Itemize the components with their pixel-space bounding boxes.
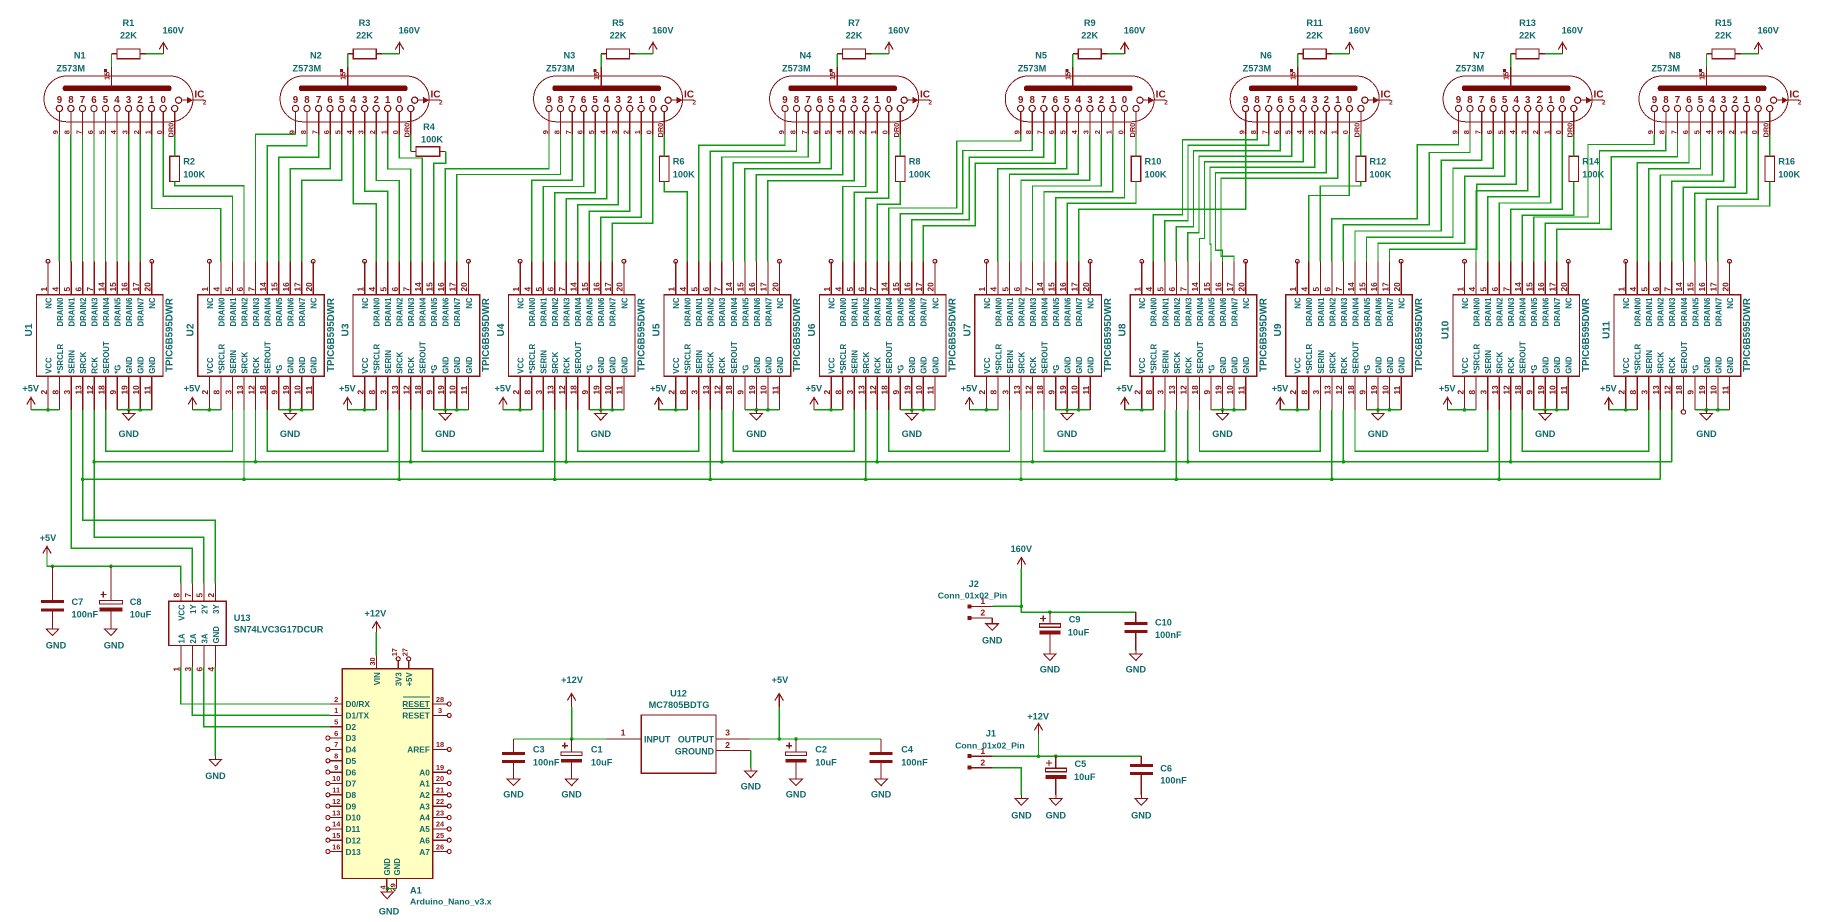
A1 right pins RESET/AREF/A0-A7 (402, 695, 451, 857)
svg-text:VCC: VCC (828, 357, 837, 374)
svg-text:N8: N8 (1669, 51, 1681, 61)
svg-text:10: 10 (1548, 385, 1558, 395)
svg-text:DRAIN6: DRAIN6 (1064, 297, 1073, 327)
N6 anode pin A (1289, 67, 1298, 88)
svg-text:16: 16 (1697, 282, 1707, 292)
wire N6 pin8 to U8 DRAIN7 (1221, 135, 1338, 262)
svg-text:GND: GND (46, 641, 67, 651)
svg-text:SRCK: SRCK (79, 351, 88, 373)
svg-text:7: 7 (564, 130, 573, 134)
svg-text:GND: GND (931, 356, 940, 374)
svg-text:GND: GND (1703, 356, 1712, 374)
SRCK bus (83, 478, 1661, 480)
svg-text:5: 5 (828, 95, 834, 106)
wire +5V to U9 VCC and SRCLR (1280, 409, 1309, 411)
svg-text:5: 5 (97, 130, 106, 134)
svg-text:DRAIN4: DRAIN4 (1041, 297, 1050, 327)
svg-text:9: 9 (1046, 390, 1056, 395)
svg-text:10uF: 10uF (130, 610, 152, 620)
svg-text:4: 4 (989, 287, 999, 292)
svg-text:DRAIN2: DRAIN2 (1657, 297, 1666, 327)
junction (599, 408, 603, 412)
svg-text:U4: U4 (496, 323, 507, 336)
svg-text:0: 0 (1554, 130, 1563, 134)
svg-text:A5: A5 (419, 824, 430, 834)
svg-text:2: 2 (1727, 130, 1736, 134)
wire U10 RCK drop (1510, 410, 1512, 462)
svg-text:0: 0 (155, 130, 164, 134)
svg-text:DRAIN0: DRAIN0 (684, 297, 693, 327)
U8 top pins (1133, 261, 1251, 326)
svg-text:1: 1 (1617, 287, 1627, 292)
svg-text:*SRCLR: *SRCLR (994, 344, 1003, 374)
svg-text:5: 5 (534, 287, 544, 292)
svg-text:7: 7 (1669, 130, 1678, 134)
power +5V at U8 (1116, 384, 1133, 410)
svg-text:2: 2 (511, 390, 521, 395)
wire N3 pin3 to U4 DRAIN1 (543, 135, 583, 262)
svg-text:13: 13 (546, 385, 556, 395)
svg-text:23: 23 (436, 808, 444, 817)
svg-text:16: 16 (903, 282, 913, 292)
wire U4 SEROUT to U5 SERIN (578, 410, 699, 451)
svg-text:13: 13 (73, 385, 83, 395)
svg-text:GND: GND (1726, 356, 1735, 374)
svg-text:8: 8 (50, 390, 60, 395)
svg-text:SERIN: SERIN (1317, 350, 1326, 374)
svg-text:J1: J1 (986, 729, 996, 739)
svg-text:9: 9 (1686, 390, 1696, 395)
N5 pin IC (1137, 90, 1168, 107)
svg-text:DRAIN0: DRAIN0 (994, 297, 1003, 327)
svg-text:U6: U6 (807, 323, 818, 336)
svg-text:R3: R3 (359, 18, 371, 28)
svg-text:U1: U1 (24, 323, 35, 336)
U1 pin 1 NC circle (46, 259, 50, 263)
svg-text:NC: NC (672, 297, 681, 309)
svg-text:15: 15 (891, 282, 901, 292)
svg-text:3: 3 (357, 130, 366, 134)
svg-text:GND: GND (1242, 356, 1251, 374)
resistor R16 100K (1765, 156, 1801, 181)
svg-text:8: 8 (1030, 95, 1036, 106)
wire U9 RCK drop (1342, 410, 1344, 462)
U6 bottom pins (822, 341, 940, 410)
IC U6 TPIC6B595DWR body (820, 295, 947, 377)
U10 bottom pins (1455, 341, 1573, 410)
svg-text:A1: A1 (410, 886, 422, 896)
wire +12V to A1 VIN (375, 632, 377, 656)
svg-text:DRAIN4: DRAIN4 (730, 297, 739, 327)
capacitor C6 100nF (1130, 756, 1187, 795)
N1 pin DR0 (167, 105, 178, 137)
svg-text:DRAIN1: DRAIN1 (1006, 297, 1015, 327)
junction (1555, 408, 1559, 412)
svg-text:3: 3 (1721, 95, 1727, 106)
junction (1221, 408, 1225, 412)
svg-text:DRAIN0: DRAIN0 (839, 297, 848, 327)
svg-text:2: 2 (1531, 130, 1540, 134)
svg-text:15: 15 (332, 831, 340, 840)
IC U10 TPIC6B595DWR body (1453, 295, 1580, 377)
U8 bottom pins (1133, 341, 1251, 410)
svg-text:18: 18 (569, 385, 579, 395)
N2 pin DR0 (403, 105, 414, 137)
wire N2 pin0 to U2 DRAIN3 (256, 134, 296, 261)
wire N5 pin6 to U7 DRAIN2 (1021, 135, 1090, 262)
svg-text:GND: GND (591, 429, 612, 439)
wire U4 RCK drop (565, 410, 567, 462)
svg-text:1: 1 (1744, 95, 1750, 106)
svg-text:5: 5 (1478, 287, 1488, 292)
svg-text:SEROUT: SEROUT (419, 341, 428, 374)
svg-text:DRAIN2: DRAIN2 (396, 297, 405, 327)
IC U11 TPIC6B595DWR body (1614, 295, 1741, 377)
wire U1 SEROUT to U2 SERIN (106, 410, 233, 451)
svg-text:DRAIN6: DRAIN6 (1703, 297, 1712, 327)
svg-text:100nF: 100nF (72, 610, 99, 620)
svg-text:160V: 160V (1124, 26, 1146, 36)
svg-text:2: 2 (693, 100, 697, 107)
svg-text:20: 20 (1720, 282, 1730, 292)
svg-text:6: 6 (817, 95, 823, 106)
svg-text:TPIC6B595DWR: TPIC6B595DWR (165, 298, 176, 372)
svg-text:DRAIN0: DRAIN0 (56, 297, 65, 327)
nixie tube N2 Z573M (280, 76, 429, 122)
svg-text:*SRCLR: *SRCLR (56, 344, 65, 374)
svg-text:0: 0 (1341, 130, 1350, 134)
resistor R3 22K (348, 18, 383, 59)
N4 pin IC (901, 90, 932, 107)
svg-text:7: 7 (569, 95, 574, 106)
svg-text:DRAIN1: DRAIN1 (695, 297, 704, 327)
svg-text:R16: R16 (1778, 157, 1795, 167)
svg-text:NC: NC (148, 297, 157, 309)
svg-text:DRAIN4: DRAIN4 (1680, 297, 1689, 327)
U12 pin 3 OUTPUT (716, 728, 750, 740)
U11 SEROUT NC circle (1681, 410, 1685, 414)
resistor R6 100K (660, 156, 696, 181)
junction (397, 478, 401, 482)
svg-text:*G: *G (275, 365, 284, 374)
wire R12 to U9 DRAIN1 (1320, 182, 1361, 262)
svg-text:18: 18 (436, 740, 444, 749)
svg-text:DRAIN1: DRAIN1 (1645, 297, 1654, 327)
svg-text:*G: *G (1530, 365, 1539, 374)
wire U3 RCK drop (410, 410, 412, 462)
svg-text:10uF: 10uF (1074, 772, 1096, 782)
svg-text:GND: GND (1535, 429, 1556, 439)
svg-text:GND: GND (597, 356, 606, 374)
power +5V at U3 (339, 384, 356, 410)
svg-text:1: 1 (1738, 130, 1747, 134)
svg-text:GND: GND (435, 429, 456, 439)
svg-text:8: 8 (1300, 390, 1310, 395)
svg-text:13: 13 (857, 385, 867, 395)
U4 pin 20 NC circle (622, 259, 626, 263)
junction (1342, 460, 1346, 464)
svg-text:SEROUT: SEROUT (730, 341, 739, 374)
svg-text:7: 7 (80, 95, 85, 106)
wire N5 pin4 to U7 DRAIN0 (998, 135, 1067, 262)
svg-text:8: 8 (1024, 130, 1033, 134)
svg-text:20: 20 (304, 282, 314, 292)
svg-text:SEROUT: SEROUT (102, 341, 111, 374)
svg-text:RCK: RCK (91, 357, 100, 374)
svg-text:C2: C2 (815, 745, 827, 755)
wire +5V to U8 VCC and SRCLR (1125, 409, 1154, 411)
svg-text:DRAIN7: DRAIN7 (1230, 298, 1239, 327)
svg-text:DRAIN3: DRAIN3 (91, 297, 100, 327)
svg-text:NC: NC (465, 297, 474, 309)
N7 anode pin A (1501, 67, 1510, 88)
svg-text:3: 3 (1312, 95, 1318, 106)
U4 top pins (511, 261, 629, 326)
svg-text:4: 4 (522, 287, 532, 292)
wire U8 SRCK drop (1175, 410, 1177, 480)
svg-text:GND: GND (212, 626, 221, 644)
svg-text:AREF: AREF (407, 745, 430, 755)
wire N5 pin7 to U7 DRAIN3 (1033, 135, 1102, 262)
svg-text:2: 2 (137, 95, 142, 106)
U6 pin 20 NC circle (933, 259, 937, 263)
U4 bottom pins (511, 341, 629, 410)
svg-text:C8: C8 (130, 597, 142, 607)
ground at C4 (871, 776, 892, 800)
svg-text:100K: 100K (1778, 170, 1800, 180)
svg-text:DRAIN0: DRAIN0 (1472, 297, 1481, 327)
ground at U1 (118, 410, 139, 439)
junction (611, 408, 615, 412)
ground at C2 (786, 776, 807, 800)
svg-text:SERIN: SERIN (851, 350, 860, 374)
svg-text:DRAIN1: DRAIN1 (540, 297, 549, 327)
svg-text:DRAIN0: DRAIN0 (1150, 297, 1159, 327)
wire U3 SRCK drop (398, 410, 400, 480)
svg-text:DRAIN4: DRAIN4 (1519, 297, 1528, 327)
svg-text:16: 16 (120, 282, 130, 292)
connector J1 Conn_01x02_Pin (968, 746, 993, 770)
wire U7 G/GND pins (1056, 409, 1091, 411)
junction (1054, 754, 1058, 758)
svg-text:22K: 22K (356, 31, 373, 41)
svg-text:14: 14 (413, 282, 423, 292)
svg-text:4: 4 (840, 95, 846, 106)
svg-text:13: 13 (332, 808, 340, 817)
svg-text:DRAIN7: DRAIN7 (1386, 298, 1395, 327)
svg-text:3: 3 (846, 130, 855, 134)
svg-text:DRAIN6: DRAIN6 (753, 297, 762, 327)
svg-text:20: 20 (459, 282, 469, 292)
svg-text:5: 5 (1640, 287, 1650, 292)
U2 pin 1 NC circle (208, 259, 212, 263)
svg-text:GND: GND (609, 356, 618, 374)
svg-text:1: 1 (639, 95, 645, 106)
svg-text:17: 17 (1380, 282, 1390, 292)
ground at U5 (746, 410, 767, 439)
svg-text:DRAIN7: DRAIN7 (764, 298, 773, 327)
svg-text:SRCK: SRCK (551, 351, 560, 373)
svg-text:SRCK: SRCK (1496, 351, 1505, 373)
wire anode to R9 (1072, 54, 1074, 67)
IC U2 TPIC6B595DWR body (198, 295, 325, 377)
svg-text:*G: *G (741, 365, 750, 374)
svg-text:10uF: 10uF (815, 757, 837, 767)
wire N1 pin5 to U1 DRAIN5 (116, 135, 118, 262)
svg-text:DRAIN7: DRAIN7 (137, 298, 146, 327)
svg-text:100K: 100K (1369, 170, 1391, 180)
wire R7 to 160V (872, 53, 889, 55)
wire anode to R7 (836, 54, 838, 67)
svg-text:8: 8 (1144, 390, 1154, 395)
wire N1 pin7 to U1 DRAIN7 (139, 135, 141, 262)
svg-text:3: 3 (1478, 390, 1488, 395)
svg-text:2: 2 (1099, 95, 1104, 106)
svg-text:GND: GND (1374, 356, 1383, 374)
svg-text:1: 1 (149, 95, 155, 106)
svg-text:2: 2 (439, 100, 443, 107)
svg-text:*SRCLR: *SRCLR (839, 344, 848, 374)
svg-text:12: 12 (713, 385, 723, 395)
wire anode to R11 (1297, 54, 1299, 67)
svg-text:C10: C10 (1155, 618, 1172, 628)
svg-text:4: 4 (1709, 95, 1715, 106)
svg-text:5: 5 (845, 287, 855, 292)
svg-text:2: 2 (822, 390, 832, 395)
svg-text:19: 19 (1213, 385, 1223, 395)
IC U3 TPIC6B595DWR body (353, 295, 480, 377)
svg-text:22K: 22K (1715, 31, 1732, 41)
svg-text:DRAIN6: DRAIN6 (287, 297, 296, 327)
N1 pin IC (176, 90, 207, 107)
svg-text:U3: U3 (341, 323, 352, 336)
svg-text:DRAIN4: DRAIN4 (885, 297, 894, 327)
svg-text:DRAIN3: DRAIN3 (718, 297, 727, 327)
svg-text:GND: GND (741, 782, 762, 792)
svg-text:+5V: +5V (40, 533, 57, 543)
svg-text:11: 11 (459, 385, 469, 394)
svg-text:5: 5 (339, 95, 345, 106)
svg-text:3: 3 (1307, 130, 1316, 134)
svg-text:7: 7 (1261, 130, 1270, 134)
svg-text:10uF: 10uF (1068, 627, 1090, 637)
svg-text:*SRCLR: *SRCLR (1472, 344, 1481, 374)
svg-text:SERIN: SERIN (695, 350, 704, 374)
svg-text:2: 2 (627, 95, 632, 106)
junction (1463, 408, 1467, 412)
svg-text:SERIN: SERIN (540, 350, 549, 374)
svg-text:2: 2 (980, 757, 985, 767)
svg-text:+5V: +5V (772, 675, 789, 685)
svg-text:9: 9 (334, 763, 338, 772)
wire N4 pin3 to U5 DRAIN4 (733, 135, 819, 262)
ground at C5 (1046, 795, 1067, 820)
power +5V rail (40, 533, 57, 554)
svg-text:8: 8 (989, 390, 999, 395)
capacitor C9 10uF (1039, 612, 1089, 650)
svg-text:R11: R11 (1306, 18, 1322, 28)
junction (444, 408, 448, 412)
svg-text:+12V: +12V (1027, 711, 1050, 721)
svg-text:15: 15 (108, 282, 118, 292)
wire N2 pin3 to U2 DRAIN6 (290, 135, 330, 262)
svg-text:10: 10 (1225, 385, 1235, 395)
svg-text:6: 6 (581, 95, 587, 106)
svg-text:1: 1 (1330, 130, 1339, 134)
svg-text:2: 2 (203, 100, 207, 107)
wire +5V to output rail (778, 707, 780, 739)
svg-text:14: 14 (1035, 282, 1045, 292)
svg-text:N1: N1 (74, 51, 86, 61)
junction (1140, 408, 1144, 412)
svg-text:6: 6 (1490, 287, 1500, 292)
wire N8 pin8 to U11 DRAIN5 (1695, 135, 1747, 262)
wire J2 pin1 to caps (993, 606, 1136, 612)
wire N2 pin5 to U3 DRAIN0 (353, 135, 376, 262)
wire N4 pin8 to U6 DRAIN1 (854, 135, 877, 262)
svg-text:+5V: +5V (1439, 384, 1456, 394)
svg-text:SEROUT: SEROUT (1519, 341, 1528, 374)
svg-text:5: 5 (1000, 287, 1010, 292)
svg-text:*SRCLR: *SRCLR (1634, 344, 1643, 374)
svg-text:GND: GND (1219, 356, 1228, 374)
svg-text:RCK: RCK (563, 357, 572, 374)
wire U10 SRCK drop (1498, 410, 1500, 480)
svg-text:3: 3 (438, 706, 442, 715)
svg-text:NC: NC (776, 297, 785, 309)
U11 pin 1 NC circle (1624, 259, 1628, 263)
svg-text:2: 2 (667, 390, 677, 395)
svg-text:NC: NC (1461, 297, 1470, 309)
svg-text:2: 2 (1732, 95, 1737, 106)
svg-text:2: 2 (39, 390, 49, 395)
svg-text:DRAIN5: DRAIN5 (275, 297, 284, 327)
wire N1 pin4 to U1 DRAIN4 (105, 135, 107, 262)
wire +5V to U2 VCC and SRCLR (192, 409, 221, 411)
junction (910, 408, 914, 412)
svg-text:6: 6 (857, 287, 867, 292)
power 160V (159, 26, 185, 54)
svg-text:2: 2 (858, 130, 867, 134)
svg-text:GND: GND (1087, 356, 1096, 374)
svg-text:9: 9 (777, 130, 786, 134)
power 160V (885, 26, 911, 54)
svg-text:22K: 22K (1306, 31, 1323, 41)
svg-text:Z573M: Z573M (782, 64, 811, 74)
wire anode to R1 (111, 54, 113, 67)
A1 top pins VIN 3V3 +5V (368, 648, 414, 686)
wire U5 SRCK drop (709, 410, 711, 480)
svg-text:7: 7 (1266, 95, 1271, 106)
svg-text:18: 18 (1346, 385, 1356, 395)
wire U10 SEROUT to U11 SERIN (1522, 410, 1649, 451)
ground at U2 (280, 410, 301, 439)
svg-text:17: 17 (1548, 282, 1558, 292)
svg-text:DRAIN7: DRAIN7 (1714, 298, 1723, 327)
svg-text:*G: *G (114, 365, 123, 374)
svg-text:GND: GND (379, 907, 400, 917)
svg-text:SRCK: SRCK (1173, 351, 1182, 373)
svg-text:VCC: VCC (1294, 357, 1303, 374)
svg-text:R6: R6 (673, 157, 685, 167)
svg-text:DRAIN5: DRAIN5 (741, 297, 750, 327)
junction (1716, 408, 1720, 412)
svg-text:RCK: RCK (407, 357, 416, 374)
svg-text:NC: NC (620, 297, 629, 309)
svg-text:10: 10 (914, 385, 924, 395)
svg-text:100K: 100K (183, 170, 205, 180)
svg-text:DRAIN4: DRAIN4 (1196, 297, 1205, 327)
